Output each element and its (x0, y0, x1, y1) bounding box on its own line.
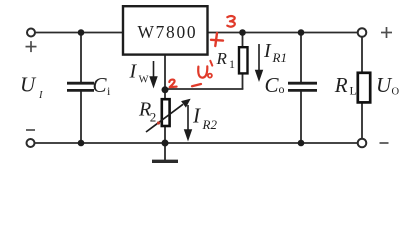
svg-text:R: R (334, 73, 348, 97)
svg-text:o: o (279, 82, 285, 96)
svg-text:W7800: W7800 (138, 22, 198, 42)
svg-text:R2: R2 (202, 117, 218, 132)
svg-text:C: C (265, 73, 280, 97)
svg-text:O: O (392, 87, 400, 98)
svg-text:U: U (20, 73, 37, 97)
svg-text:I: I (38, 90, 43, 101)
svg-text:R: R (216, 49, 228, 68)
svg-text:W: W (139, 75, 149, 86)
svg-text:I: I (263, 40, 272, 62)
svg-text:1: 1 (229, 57, 235, 71)
svg-text:I: I (192, 104, 201, 128)
svg-text:I: I (129, 60, 138, 82)
svg-text:2: 2 (150, 110, 157, 125)
svg-text:U: U (376, 73, 393, 97)
svg-text:R1: R1 (272, 50, 287, 65)
svg-text:L: L (350, 84, 357, 98)
svg-text:C: C (93, 73, 108, 97)
